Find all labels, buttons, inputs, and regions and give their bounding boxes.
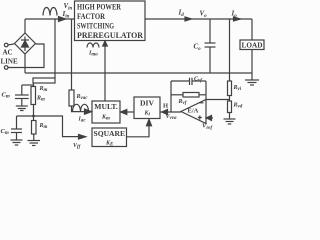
resistor Rm lower vertical — [32, 121, 37, 135]
ground below Rvd — [224, 113, 236, 125]
svg-text:Rm: Rm — [39, 86, 48, 93]
wire Iac into MULT — [72, 106, 93, 112]
arrow into MULT right input — [121, 110, 127, 115]
resistor Rvf — [171, 93, 206, 98]
arrow Vref into non-inverting input — [206, 115, 213, 120]
wire Vff to SQUARE — [34, 116, 86, 137]
svg-text:PREREGULATOR: PREREGULATOR — [77, 31, 143, 40]
wire divider junction — [229, 96, 231, 102]
svg-text:FACTOR: FACTOR — [77, 12, 105, 21]
wire Rm to chain — [33, 83, 35, 87]
AC line bottom terminal — [4, 66, 8, 70]
op-amp E/A error amplifier — [181, 100, 206, 124]
capacitor Co — [205, 19, 216, 73]
wire top bus right segment — [145, 18, 252, 20]
resistor Rvd — [228, 101, 232, 113]
wire inverting input from divider junction — [206, 99, 230, 101]
AC line top terminal — [4, 43, 14, 47]
ground below Cm first — [16, 106, 28, 111]
wire AC return to bridge right corner — [8, 44, 44, 68]
arrow Iac into MULT — [85, 109, 92, 114]
svg-text:AC: AC — [3, 49, 13, 57]
svg-text:Rvi: Rvi — [233, 85, 242, 92]
ground below Cm second — [11, 140, 23, 145]
svg-text:KE: KE — [105, 141, 114, 148]
arrow Imo up into preregulator — [103, 41, 108, 46]
block SQUARE — [92, 128, 127, 148]
svg-text:Rvd: Rvd — [233, 103, 243, 110]
arrow Iin on input wire — [59, 17, 66, 22]
sine symbol Iac — [73, 104, 89, 111]
wire E/A output to DIV — [160, 111, 181, 113]
svg-text:Km: Km — [101, 115, 110, 122]
svg-text:Rm: Rm — [36, 96, 45, 103]
svg-text:HIGH POWER: HIGH POWER — [77, 3, 121, 12]
wire bridge bottom corner to ground bus — [24, 54, 26, 73]
inductor L1 on input wire — [43, 8, 57, 16]
wire cap Cm1 tap — [22, 84, 34, 86]
resistor Rm horizontal sense — [33, 78, 55, 83]
svg-text:Cvf: Cvf — [194, 77, 203, 84]
node junction dot — [32, 115, 35, 118]
wire DIV output to MULT — [121, 111, 134, 113]
resistor Rvi — [228, 81, 232, 96]
svg-text:SQUARE: SQUARE — [94, 130, 126, 138]
resistor Rvac — [69, 90, 74, 106]
wire ground bus — [25, 72, 252, 74]
block U1 high power factor switching preregulator — [75, 1, 146, 41]
svg-text:Iac: Iac — [78, 117, 87, 124]
ground below Rm lower — [28, 134, 41, 146]
svg-text:SWITCHING: SWITCHING — [77, 22, 114, 31]
wire Cm2 tap — [17, 115, 34, 117]
wire SQUARE output to DIV bottom — [127, 125, 150, 137]
capacitor Cvf — [171, 78, 206, 85]
wire feedback left riser — [170, 81, 172, 112]
arrow into DIV right input — [162, 109, 168, 114]
svg-text:LOAD: LOAD — [242, 42, 263, 50]
capacitor Cm second — [11, 116, 22, 140]
resistor Rm upper vertical — [31, 87, 36, 105]
svg-text:Co: Co — [194, 43, 202, 53]
svg-text:Imo: Imo — [88, 51, 98, 58]
wire riser to Rm sense resistor — [54, 19, 56, 78]
svg-text:Cm: Cm — [2, 92, 10, 100]
svg-text:E/A: E/A — [188, 108, 199, 115]
svg-text:Rvac: Rvac — [76, 94, 89, 101]
wire feedback right riser — [205, 81, 207, 100]
capacitor Cm first — [15, 85, 29, 106]
arrow Vff into SQUARE — [79, 134, 86, 139]
bridge rectifier BR1 diamond — [15, 33, 36, 54]
svg-text:Vo: Vo — [200, 10, 208, 20]
svg-text:MULT.: MULT. — [94, 103, 118, 111]
arrow up into DIV bottom — [147, 119, 152, 126]
wire chain middle — [33, 105, 35, 121]
sine symbol Imo — [87, 43, 99, 48]
wire riser Vo sense to divider — [229, 19, 231, 81]
svg-text:Vref: Vref — [202, 123, 214, 132]
arrow Io on output bus — [234, 17, 241, 21]
wire top bus left segment — [25, 18, 75, 20]
svg-text:Vff: Vff — [73, 143, 82, 149]
svg-text:LINE: LINE — [1, 58, 18, 66]
wire riser to Rvac resistor — [71, 19, 73, 90]
svg-text:DIV: DIV — [140, 100, 154, 108]
arrow Id on output bus — [185, 17, 192, 21]
svg-text:Rm: Rm — [39, 123, 48, 130]
load block — [240, 19, 264, 73]
svg-text:Ki: Ki — [144, 111, 151, 118]
svg-text:Id: Id — [178, 9, 185, 19]
svg-text:Vvea: Vvea — [166, 114, 177, 121]
wire Imo from MULT to preregulator — [104, 41, 106, 102]
diode inside bridge — [21, 37, 29, 52]
block MULT multiplier — [92, 101, 120, 123]
block DIV divider — [134, 97, 160, 119]
svg-text:Cm: Cm — [1, 128, 9, 136]
wire riser from bridge top corner to top bus — [24, 19, 26, 33]
ground output return — [245, 73, 259, 85]
svg-text:H: H — [163, 103, 168, 110]
svg-text:Rvf: Rvf — [178, 99, 188, 106]
